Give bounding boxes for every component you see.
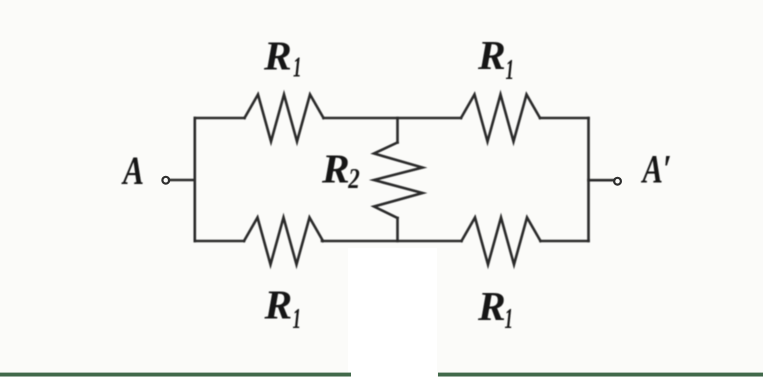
bottom wire left segment (195, 240, 244, 243)
bottom wire middle segment (322, 240, 462, 243)
resistor R1 bottom-right (462, 218, 541, 265)
top wire left segment (195, 117, 245, 120)
svg-text:R: R (264, 282, 293, 328)
terminal A circle (162, 177, 169, 184)
svg-text:1: 1 (293, 52, 302, 84)
bottom wire right segment (541, 240, 589, 243)
svg-text:1: 1 (293, 303, 302, 335)
left bus wire (194, 118, 197, 241)
white patch (348, 248, 437, 377)
resistor R1 top-left (245, 95, 324, 142)
svg-text:R: R (321, 146, 350, 192)
wire stub from top wire to R2 (396, 118, 399, 143)
svg-text:R: R (477, 283, 506, 329)
svg-text:1: 1 (506, 54, 515, 86)
right bus wire (587, 118, 590, 241)
terminal A' wire (589, 179, 614, 182)
top wire middle segment (324, 117, 462, 120)
top wire right segment (540, 117, 589, 120)
green rule left segment (0, 373, 351, 377)
svg-text:A: A (121, 148, 144, 193)
svg-text:R: R (477, 32, 506, 78)
green rule right segment (438, 373, 763, 377)
terminal A wire (170, 179, 195, 182)
svg-text:A′: A′ (640, 147, 671, 192)
resistor R2 (vertical) (374, 143, 423, 219)
resistor R1 bottom-left (244, 218, 323, 265)
wire stub from R2 to bottom wire (396, 218, 399, 241)
svg-text:2: 2 (347, 164, 359, 195)
terminal A' circle (614, 178, 621, 185)
svg-text:R: R (263, 33, 292, 79)
svg-text:1: 1 (505, 303, 514, 335)
resistor R1 top-right (461, 95, 540, 142)
